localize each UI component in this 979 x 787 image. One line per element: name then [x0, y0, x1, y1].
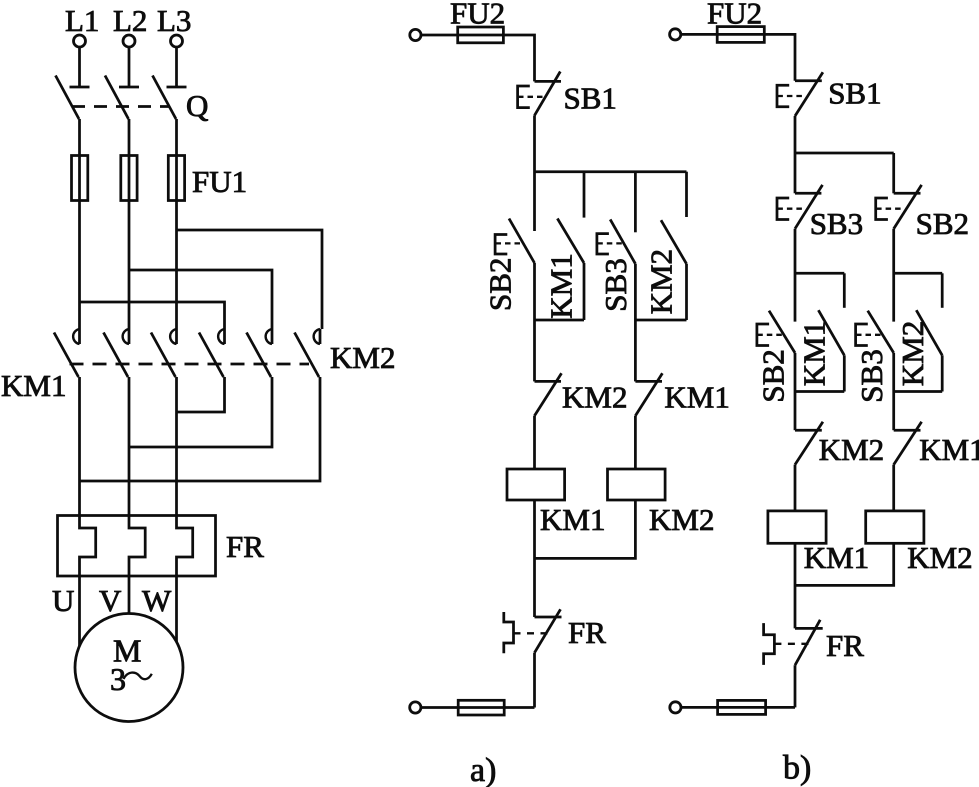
wire pole3 down to FR [175, 377, 178, 516]
wire branch L2 to KM2 pole5 [129, 270, 272, 329]
pushbutton SB2 b (NO) [769, 311, 795, 353]
contactor linkage dashed [70, 363, 310, 366]
svg-text:L3: L3 [157, 3, 191, 38]
contactor KM1 main contact pole1 [54, 329, 80, 377]
terminal L3 [171, 35, 183, 47]
FR heater element 2 [129, 516, 145, 577]
wire a top right corner [503, 35, 534, 81]
svg-text:W: W [142, 583, 172, 618]
contact KM2 NC a [535, 373, 562, 415]
junction SB2 KM1 b [795, 390, 844, 393]
svg-text:FU1: FU1 [192, 164, 247, 199]
wire to KM1 NC b [892, 392, 895, 431]
svg-text:SB2: SB2 [756, 349, 791, 402]
pushbutton SB1 b (NC) [795, 72, 823, 116]
wire SB2 bottom b [794, 353, 797, 392]
wire L3 to switch [175, 48, 178, 88]
FR a actuator [504, 612, 549, 653]
wire a top left [421, 34, 458, 37]
wire KM2 aux bottom b [941, 355, 944, 391]
fuse FU1 phase 2 [121, 156, 137, 201]
pushbutton SB3 b (NO) [868, 311, 894, 353]
junction SB3 KM2 b [894, 390, 943, 393]
svg-text:SB2: SB2 [483, 258, 518, 311]
svg-text:KM2: KM2 [644, 249, 679, 314]
contact KM1 aux a (NO) [557, 219, 584, 264]
wire SB1 to rail b [794, 116, 797, 153]
fuse FU2 b [717, 27, 764, 43]
contactor KM2 main contact pole5 [247, 329, 273, 377]
fuse FU1 phase 1 [72, 156, 88, 201]
wire L2 to switch [128, 48, 131, 88]
coil KM2 b [866, 511, 924, 543]
SB2 b right actuator [876, 198, 902, 220]
svg-text:KM2: KM2 [907, 540, 972, 575]
wire SB3 down a [634, 264, 637, 320]
svg-text:V: V [99, 583, 122, 618]
svg-text:Q: Q [186, 88, 208, 123]
contact FR NC a [535, 609, 562, 652]
SB2 b actuator lower [757, 324, 782, 346]
thermal relay FR box [58, 516, 216, 577]
wire W to motor [175, 576, 178, 642]
fuse FU1 phase 3 [168, 156, 184, 201]
svg-text:FR: FR [568, 615, 606, 650]
FR heater element 3 [177, 516, 193, 577]
wire SB2 down a [533, 263, 536, 320]
svg-text:KM1: KM1 [540, 502, 605, 537]
wire KM1 aux down a [583, 263, 586, 320]
wire U to motor [78, 576, 81, 646]
pushbutton SB2 a (NO) [509, 219, 535, 264]
junction SB3 KM2 a [635, 319, 686, 322]
wire pole4 cross to phase3 [177, 377, 225, 412]
svg-text:b): b) [783, 750, 811, 787]
wire SB3 down to subrail b [794, 229, 797, 322]
fuse bottom a [458, 700, 504, 715]
svg-text:SB3: SB3 [598, 258, 633, 311]
stub KM2 aux b [941, 273, 944, 308]
svg-text:SB1: SB1 [828, 76, 881, 111]
stub SB3 a [634, 172, 637, 233]
svg-text:KM2: KM2 [330, 340, 395, 375]
junction SB2 KM1 a [535, 319, 585, 322]
svg-text:FR: FR [826, 628, 864, 663]
svg-text:KM2: KM2 [819, 432, 884, 467]
wire pole2 to fuse2 [128, 119, 131, 156]
svg-text:SB2: SB2 [916, 206, 969, 241]
wire SB3 bottom b [892, 353, 895, 392]
wire SB2 down to subrail b [892, 229, 895, 322]
wire right branch b top [892, 153, 895, 193]
switch Q pole 1 [56, 76, 90, 120]
svg-text:KM1: KM1 [804, 540, 869, 575]
wire to coil KM2 a [634, 416, 637, 469]
fuse bottom b [718, 700, 766, 714]
terminal L2 [123, 35, 135, 47]
wire L1 to switch [78, 48, 81, 88]
contact FR NC b [795, 620, 823, 665]
contact KM1 NC a [635, 373, 662, 415]
terminal b bottom [670, 702, 681, 713]
svg-text:KM1: KM1 [919, 432, 979, 467]
contact KM2 aux a (NO) [661, 220, 687, 264]
wire below coil KM1 a [533, 500, 536, 617]
svg-text:KM1: KM1 [1, 368, 66, 403]
terminal a top [410, 29, 421, 40]
terminal b top [670, 29, 681, 40]
SB2 a actuator [495, 235, 521, 255]
wire FR down b [794, 665, 797, 707]
contactor KM1 main contact pole3 [151, 329, 177, 377]
wire pole6 cross to phase1 [80, 377, 321, 481]
contactor KM2 main contact pole4 [199, 329, 225, 377]
stub KM1 aux b [843, 273, 846, 308]
switch Q linkage [72, 105, 170, 108]
stub KM2 aux a [685, 172, 688, 217]
rail b [795, 152, 894, 155]
wire to KM2 NC b [794, 392, 797, 431]
subrail right b [894, 272, 943, 275]
FR b actuator [764, 623, 809, 665]
svg-text:SB1: SB1 [564, 81, 617, 116]
svg-text:KM1: KM1 [797, 321, 832, 386]
wire below coil KM1 b [794, 543, 797, 628]
stub KM1 aux a [583, 172, 586, 218]
SB1 a actuator [518, 86, 544, 108]
rail a [535, 170, 687, 173]
svg-text:KM1: KM1 [544, 253, 579, 318]
subrail left b [795, 272, 844, 275]
contact KM1 aux b (NO) [818, 310, 844, 355]
svg-text:FU2: FU2 [450, 0, 505, 31]
wire KM2 aux down a [685, 264, 688, 320]
svg-text:KM2: KM2 [562, 380, 627, 415]
terminal a bottom [410, 702, 421, 713]
contact KM1 NC b [894, 422, 922, 465]
SB3 b actuator [777, 198, 804, 220]
wire below coil KM2 a [535, 500, 636, 558]
wire branch L1 to KM2 pole4 [80, 302, 225, 329]
contactor KM1 main contact pole2 [104, 329, 130, 377]
wire FR down a [533, 653, 536, 708]
coil KM1 a [507, 469, 565, 500]
wire pole1 down to FR [78, 377, 81, 516]
wire phase3 down to KM1 contact [175, 201, 178, 330]
wire pole5 cross to phase2 [129, 377, 272, 447]
motor tilde [124, 673, 152, 680]
svg-text:KM1: KM1 [664, 380, 729, 415]
coil KM1 b [768, 511, 826, 543]
FR heater element 1 [80, 516, 96, 577]
wire below coil KM2 b [795, 543, 894, 585]
contact KM2 aux b (NO) [916, 310, 942, 355]
SB3 b actuator lower [856, 324, 881, 346]
pushbutton SB3 a (NO) [610, 219, 635, 263]
svg-text:a): a) [470, 752, 496, 787]
switch Q pole 2 [105, 76, 139, 120]
SB3 a actuator [597, 234, 623, 254]
wire pole2 down to FR [128, 377, 131, 516]
svg-text:FU2: FU2 [707, 0, 762, 31]
svg-text:L2: L2 [113, 3, 147, 38]
contactor KM2 main contact pole6 [295, 329, 321, 377]
wire SB1 to rail a [533, 115, 536, 231]
svg-text:SB3: SB3 [810, 206, 863, 241]
wire branch L3 to KM2 pole6 [177, 230, 323, 329]
svg-text:U: U [52, 583, 74, 618]
wire left branch a [533, 320, 536, 381]
wire to coil KM2 b [892, 465, 895, 511]
wire right branch a [634, 320, 637, 381]
svg-text:KM2: KM2 [895, 321, 930, 386]
svg-text:L1: L1 [65, 3, 99, 38]
switch Q pole 3 [153, 76, 187, 120]
svg-text:KM2: KM2 [649, 502, 714, 537]
wire pole3 to fuse3 [175, 119, 178, 156]
fuse FU2 a [458, 27, 504, 43]
coil KM2 a [608, 469, 666, 500]
motor M circle [75, 614, 183, 722]
wire pole1 to fuse1 [78, 119, 81, 156]
terminal L1 [74, 35, 86, 47]
contact KM2 NC b [795, 422, 823, 465]
wire b top left [681, 33, 717, 36]
svg-text:FR: FR [226, 529, 264, 564]
wire phase2 down to KM1 contact [128, 201, 131, 330]
pushbutton SB2 b right (NC) [894, 185, 922, 229]
bottom rail a [421, 706, 535, 709]
wire to coil KM1 b [794, 465, 797, 511]
SB1 b actuator [777, 85, 804, 107]
wire phase1 down to KM1 contact [78, 201, 81, 330]
pushbutton SB3 b (NC) [795, 185, 823, 229]
bottom rail b [681, 706, 795, 709]
svg-text:SB3: SB3 [854, 349, 889, 402]
pushbutton SB1 a (NC) [535, 72, 562, 116]
wire b top right corner [764, 34, 795, 80]
wire KM1 aux bottom b [843, 355, 846, 391]
wire left branch b top [794, 153, 797, 193]
wire V to motor [128, 576, 131, 614]
wire to coil KM1 a [533, 416, 536, 469]
